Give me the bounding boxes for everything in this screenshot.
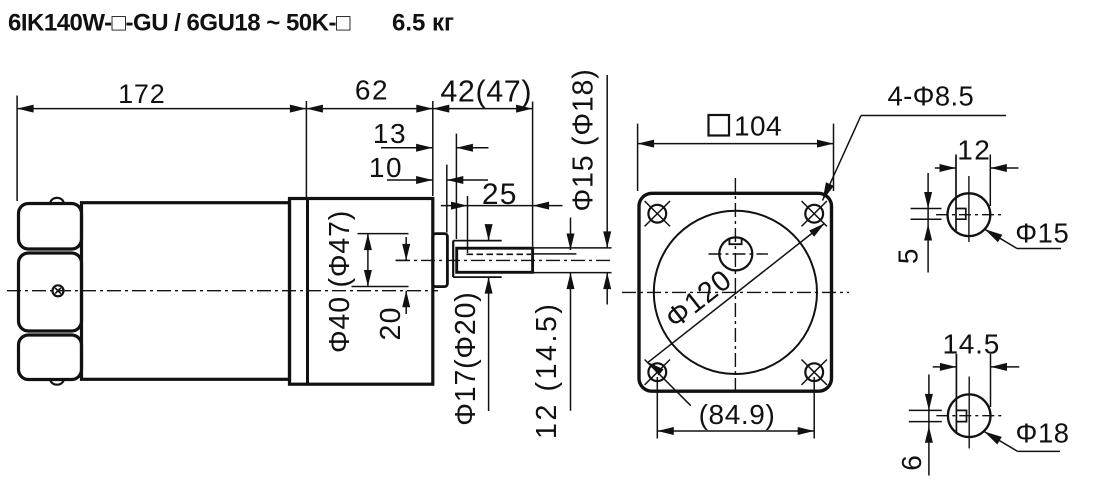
dim 104 extension left bbox=[637, 124, 639, 191]
motor rear cover lobe 3 bbox=[19, 335, 82, 380]
motor rear cover lobe 2 bbox=[19, 253, 82, 331]
svg-text:Φ15 (Φ18): Φ15 (Φ18) bbox=[568, 69, 600, 212]
dim 104 extension right bbox=[833, 124, 835, 191]
output shaft bbox=[457, 248, 533, 272]
detail phi15 extension right bbox=[989, 155, 991, 207]
motor axis centerline bbox=[7, 290, 438, 292]
detail phi18 extension right bbox=[990, 354, 992, 407]
dim 12(14.5) line bbox=[570, 218, 572, 251]
shaft keyway hidden line bbox=[467, 253, 532, 255]
extension line motor-gearbox bbox=[305, 101, 307, 200]
detail phi18 crosshair vertical bbox=[968, 377, 970, 449]
extension line boss 10 bbox=[446, 165, 448, 233]
boss bottom extension line bbox=[352, 286, 409, 288]
svg-text:Φ120: Φ120 bbox=[660, 264, 739, 335]
svg-text:6: 6 bbox=[896, 455, 927, 471]
svg-text:Φ40 (Φ47): Φ40 (Φ47) bbox=[324, 210, 356, 353]
dim 84.9 extension left bbox=[656, 377, 658, 439]
shaft flat extension line bbox=[534, 253, 576, 255]
rear cover top bump bbox=[50, 198, 63, 203]
svg-text:(84.9): (84.9) bbox=[699, 399, 776, 430]
svg-text:Φ15: Φ15 bbox=[1015, 217, 1069, 248]
bolt hole top-left bbox=[648, 205, 666, 223]
svg-text:10: 10 bbox=[369, 152, 403, 183]
dim 104 line bbox=[638, 143, 834, 145]
detail phi18 slot ext top bbox=[909, 409, 942, 411]
shaft top extension to phi15 dim bbox=[534, 247, 612, 249]
svg-text:14.5: 14.5 bbox=[942, 328, 1000, 359]
detail phi18 keyway slot bbox=[956, 410, 966, 421]
leader phi18 bbox=[984, 432, 1018, 452]
leader phi15 bbox=[985, 229, 1017, 248]
dim 42(47) line bbox=[433, 108, 533, 110]
detail phi15 flat chord bbox=[955, 155, 957, 233]
svg-text:5: 5 bbox=[893, 249, 924, 265]
motor body bbox=[82, 203, 290, 380]
shaft hole bbox=[719, 237, 752, 270]
detail phi18 flat chord bbox=[955, 354, 957, 433]
extension line gearbox front bbox=[432, 101, 434, 196]
svg-text:6IK140W-□-GU / 6GU18 ~ 50K-□: 6IK140W-□-GU / 6GU18 ~ 50K-□ bbox=[8, 10, 351, 37]
bolt hole bottom-right bbox=[805, 363, 823, 381]
dim 84.9 line bbox=[657, 430, 814, 432]
svg-text:6.5 кг: 6.5 кг bbox=[392, 10, 454, 37]
output boss phi40 bbox=[433, 234, 448, 287]
extension line left of motor bbox=[16, 96, 18, 202]
svg-text:25: 25 bbox=[482, 178, 518, 211]
svg-text:Φ18: Φ18 bbox=[1016, 417, 1070, 448]
extension line keyway start bbox=[467, 196, 469, 253]
detail phi18 crosshair horizontal bbox=[936, 415, 1005, 417]
dim 104 text bbox=[709, 115, 730, 136]
shaft hole keyway bbox=[729, 239, 741, 244]
detail phi15 crosshair horizontal bbox=[936, 214, 1004, 216]
dim 25 line bbox=[441, 205, 468, 207]
dim phi120 line bbox=[648, 223, 824, 362]
leader 4-phi8.5 line bbox=[861, 115, 1006, 117]
shaft step bottom line and phi17 extension bbox=[453, 276, 502, 278]
dim 20 line bbox=[405, 237, 407, 260]
dim 172 line bbox=[17, 108, 306, 110]
extension line shaft end bbox=[532, 102, 534, 247]
shaft hole crosshair bbox=[709, 253, 769, 255]
bolt hole top-right bbox=[805, 205, 823, 223]
dim 10 line bbox=[387, 179, 433, 181]
shaft step phi17 face bbox=[452, 241, 454, 278]
dim 5 line bbox=[927, 173, 929, 273]
detail phi15 crosshair vertical bbox=[968, 176, 970, 242]
svg-text:Φ17(Φ20): Φ17(Φ20) bbox=[450, 291, 482, 425]
svg-text:4-Φ8.5: 4-Φ8.5 bbox=[888, 81, 975, 112]
detail phi18 slot ext bottom bbox=[909, 421, 942, 423]
dim 13 line bbox=[381, 147, 433, 149]
shaft bottom extension to phi15 dim bbox=[534, 272, 612, 274]
svg-text:172: 172 bbox=[118, 79, 165, 109]
dim 14.5 line bbox=[933, 366, 957, 368]
dim phi17 line bbox=[488, 227, 490, 241]
svg-text:12 (14.5): 12 (14.5) bbox=[531, 301, 563, 438]
rear cover screw bbox=[53, 285, 64, 296]
dim 84.9 extension right bbox=[813, 377, 815, 439]
motor rear cover lobe 1 bbox=[19, 204, 82, 250]
svg-text:42(47): 42(47) bbox=[440, 75, 532, 109]
svg-text:104: 104 bbox=[734, 111, 782, 142]
detail phi18 circle bbox=[948, 394, 991, 437]
dim phi40 line bbox=[367, 234, 369, 287]
rear cover bottom bump bbox=[50, 380, 63, 385]
detail phi15 slot ext bottom bbox=[911, 218, 942, 220]
dim 12 line bbox=[935, 167, 956, 169]
boss top extension line bbox=[358, 233, 409, 235]
dim 62 line bbox=[306, 108, 432, 110]
flange square bbox=[639, 193, 832, 391]
dim 6 line bbox=[928, 375, 930, 476]
extension line step 13 bbox=[455, 134, 457, 239]
bolt hole bottom-left bbox=[648, 363, 666, 381]
gearbox joint line bbox=[306, 199, 309, 385]
svg-text:62: 62 bbox=[355, 75, 389, 106]
center tick for dim 20 bbox=[396, 259, 409, 261]
svg-text:20: 20 bbox=[375, 306, 407, 340]
dim phi15 line bbox=[606, 75, 608, 248]
detail phi15 slot ext top bbox=[911, 208, 942, 210]
shaft axis centerline bbox=[396, 259, 612, 261]
svg-text:12: 12 bbox=[957, 135, 991, 166]
pilot circle bbox=[654, 211, 817, 374]
front horizontal centerline bbox=[622, 291, 849, 293]
detail phi15 keyway slot bbox=[956, 209, 966, 220]
gearbox body bbox=[290, 199, 433, 385]
svg-text:13: 13 bbox=[373, 118, 407, 149]
front vertical centerline bbox=[734, 178, 736, 391]
detail phi15 circle bbox=[948, 193, 991, 236]
shaft step top line and phi17 extension bbox=[453, 240, 502, 242]
